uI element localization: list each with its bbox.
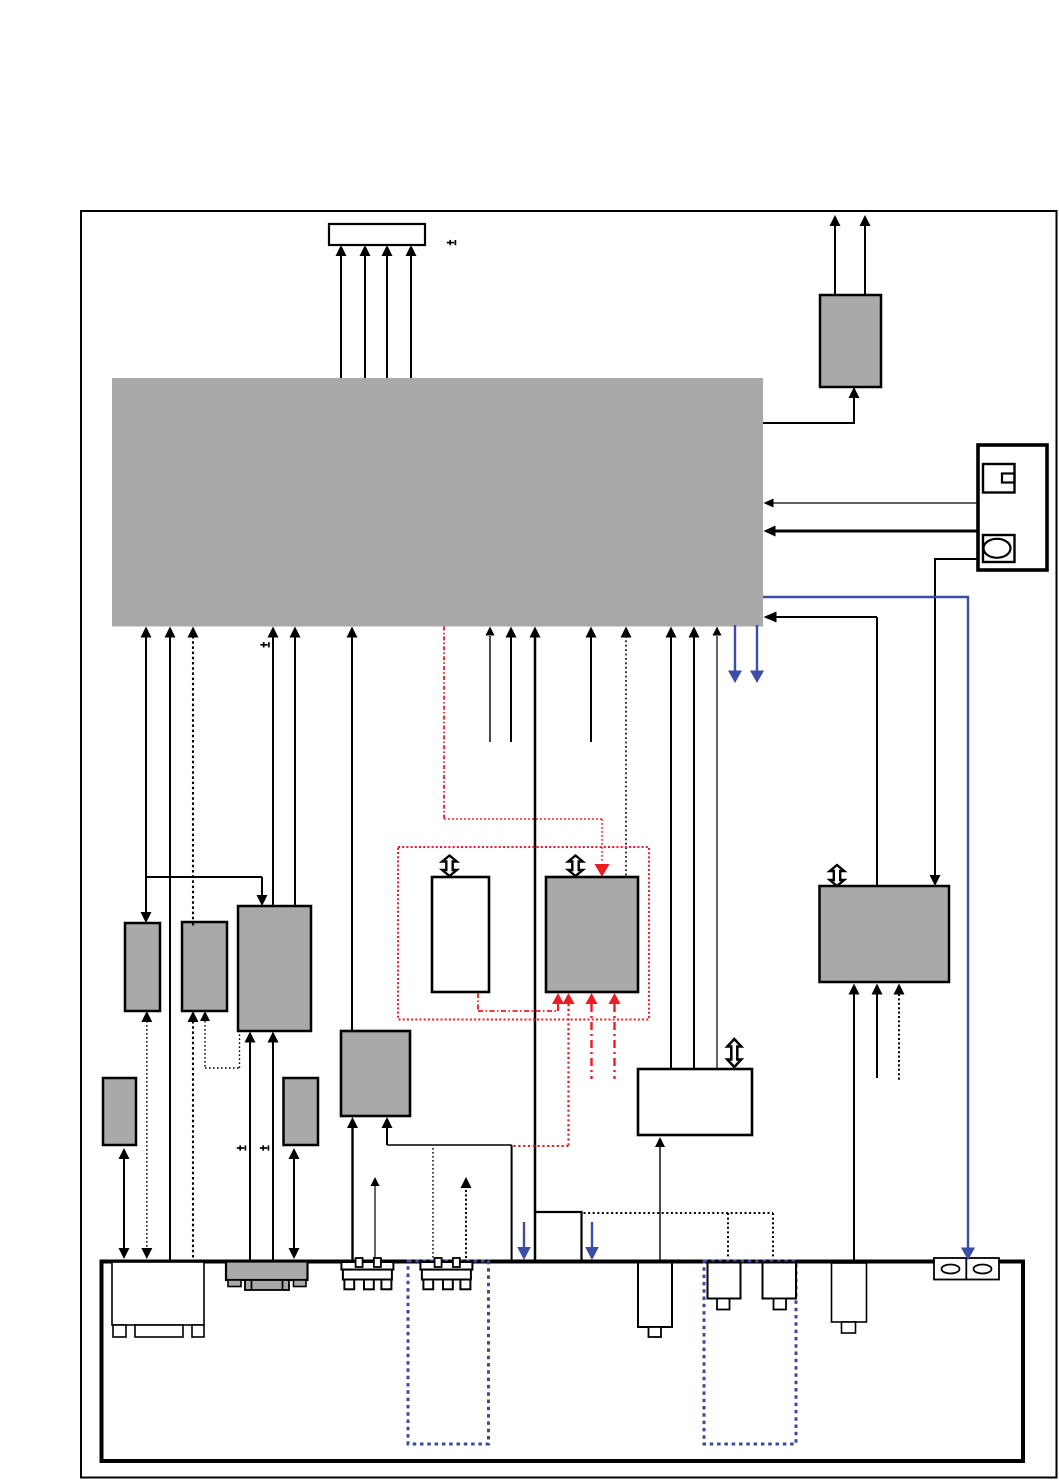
wire bbox=[763, 597, 975, 1260]
wire bbox=[382, 1117, 512, 1260]
wire bbox=[609, 993, 621, 1079]
wire bbox=[872, 984, 883, 1079]
wire bbox=[764, 499, 979, 508]
block U2 bbox=[820, 295, 881, 387]
wire bbox=[478, 993, 564, 1011]
block U3A bbox=[125, 923, 160, 1011]
label +B bbox=[447, 240, 456, 245]
wire bbox=[347, 1117, 358, 1260]
wire bbox=[141, 1011, 152, 1259]
block U3C bbox=[238, 906, 311, 1031]
wire bbox=[347, 627, 358, 1032]
rear panel bbox=[102, 1262, 1024, 1462]
wire bbox=[188, 1011, 199, 1259]
connector J3 (VGA) bbox=[226, 1262, 308, 1291]
wire bbox=[728, 625, 742, 683]
wire bbox=[268, 1032, 279, 1261]
wire bbox=[894, 984, 905, 1082]
wire bbox=[750, 625, 764, 683]
block U4 bbox=[432, 877, 489, 992]
block U5 bbox=[546, 877, 638, 992]
control panel A1 bbox=[978, 445, 1047, 570]
wire bbox=[689, 627, 700, 1070]
wire bbox=[517, 1222, 531, 1260]
wire bbox=[245, 1032, 256, 1261]
wire bbox=[141, 627, 268, 924]
wire bbox=[530, 627, 541, 1261]
bus symbol bbox=[442, 856, 457, 877]
wire bbox=[444, 627, 610, 878]
connector J8 bbox=[763, 1263, 797, 1310]
block U7 bbox=[820, 886, 950, 982]
shield box (red dashed) bbox=[398, 847, 649, 1020]
bus symbol bbox=[568, 856, 583, 877]
wire bbox=[486, 627, 495, 743]
option zone (blue dashed) bbox=[408, 1261, 489, 1444]
connector J1 bbox=[329, 224, 425, 245]
wire bbox=[655, 1137, 665, 1260]
option zone (blue dashed) bbox=[704, 1261, 796, 1444]
main IC U1 bbox=[112, 378, 763, 627]
block U3D bbox=[103, 1078, 136, 1145]
wire bbox=[432, 1148, 434, 1259]
wire bbox=[666, 627, 677, 1070]
connector J10 (AC inlet) bbox=[934, 1258, 999, 1280]
label +B bbox=[237, 1145, 246, 1150]
label +B bbox=[260, 1145, 269, 1150]
block U3B bbox=[182, 922, 227, 1011]
wire bbox=[764, 526, 979, 537]
wire bbox=[119, 1148, 130, 1259]
wire bbox=[513, 993, 575, 1146]
wire bbox=[764, 612, 878, 887]
connector J6 bbox=[638, 1263, 672, 1338]
connector J4 bbox=[341, 1258, 393, 1289]
wire bbox=[461, 1177, 472, 1259]
connector J5 bbox=[420, 1258, 472, 1289]
wire bbox=[371, 1177, 380, 1260]
wire bbox=[713, 627, 722, 1070]
wire bbox=[585, 1222, 599, 1260]
wire bbox=[860, 215, 871, 295]
wire bbox=[763, 387, 860, 423]
connector J9 bbox=[832, 1263, 867, 1333]
wire bbox=[849, 984, 860, 1261]
block U3E bbox=[284, 1078, 319, 1145]
wire bbox=[192, 923, 194, 928]
wire bbox=[506, 627, 517, 743]
wire bbox=[586, 627, 597, 743]
bus symbol bbox=[830, 865, 844, 886]
wire bbox=[336, 245, 417, 378]
wire bbox=[165, 627, 176, 1261]
wire bbox=[289, 1148, 300, 1259]
wire bbox=[621, 627, 632, 878]
block U8 bbox=[638, 1069, 752, 1135]
wire bbox=[586, 993, 598, 1079]
connector J2 bbox=[112, 1262, 204, 1337]
block U6 bbox=[341, 1031, 410, 1116]
wire bbox=[830, 215, 841, 295]
wire bbox=[188, 627, 199, 925]
wire bbox=[200, 1011, 240, 1068]
wire bbox=[290, 627, 301, 907]
bus symbol bbox=[727, 1039, 741, 1067]
connector J7 bbox=[708, 1263, 741, 1310]
wire bbox=[268, 627, 279, 907]
connector stub bbox=[535, 1212, 582, 1260]
wire bbox=[930, 559, 979, 886]
wire bbox=[961, 1248, 975, 1261]
label +B bbox=[260, 642, 269, 647]
wire bbox=[584, 1213, 774, 1259]
